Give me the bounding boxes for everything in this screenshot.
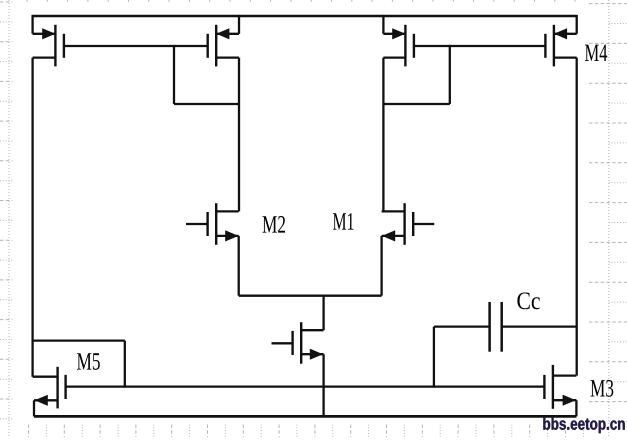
wire: source of M2 down to tail node (238, 236, 240, 296)
label M3 (590, 380, 613, 397)
wire: drain of top-right inner PMOS down to drain of M1 (382, 58, 384, 212)
wire: tail node horizontal (239, 295, 382, 297)
wire: drain of top-left inner PMOS down to drain of M2 (238, 58, 240, 212)
wire: gate link of right PMOS pair (414, 45, 546, 47)
label M4 (585, 45, 607, 61)
transistor M2 (NMOS, left input of differential pair) (186, 203, 239, 245)
transistor M4 (PMOS, top-right outer) (545, 15, 576, 67)
label Cc (517, 292, 539, 309)
transistor Q_TL (PMOS current mirror, top-left outer, unlabeled) (33, 15, 64, 67)
label M2 (262, 216, 285, 233)
wire: top VDD rail (33, 15, 577, 17)
watermark bbs.eetop.cn (543, 417, 624, 433)
wire: source of M1 down to tail node (380, 236, 382, 296)
label M1 (333, 213, 354, 230)
capacitor Cc (434, 302, 577, 352)
transistor M3 (NMOS, output mirror) (544, 365, 576, 409)
wire: source of tail transistor down to ground rail (322, 354, 324, 416)
wire: gate link of left PMOS pair (64, 45, 208, 47)
label M5 (77, 353, 100, 370)
transistor Q_TRD (PMOS, top-right inner, diode-connected, unlabeled) (383, 15, 414, 67)
wire: gate net linking M5 gate, M3 gate and Cc (66, 385, 545, 387)
wire: diode connection loop of left PMOS mirror (174, 45, 239, 104)
transistor M1 (NMOS, right input of differential pair) (382, 203, 435, 245)
wire: Cc left terminal down to gate net (433, 327, 435, 388)
wire: tail node down to drain of tail transistor (322, 295, 324, 331)
wire: diode connection loop of right PMOS mirror (383, 45, 449, 104)
wire: source of M5 down to ground rail (33, 400, 35, 416)
transistor Q_TLD (PMOS, top-left inner, diode-connected, unlabeled) (208, 15, 239, 67)
transistor M5 (NMOS, diode-connected mirror input) (33, 367, 66, 409)
wire: left branch (drain of top-left PMOS down to drain of M5) (31, 58, 33, 377)
wire: source of M3 down to ground rail (575, 400, 577, 416)
wire: bottom ground rail (34, 415, 576, 418)
transistor Q_tail (NMOS tail current source, unlabeled) (272, 322, 324, 364)
wire: M5 diode connection (drain node over to gate net) (33, 341, 125, 388)
wire: drain of M4 down right side to drain of M3 (output node) (576, 58, 578, 376)
